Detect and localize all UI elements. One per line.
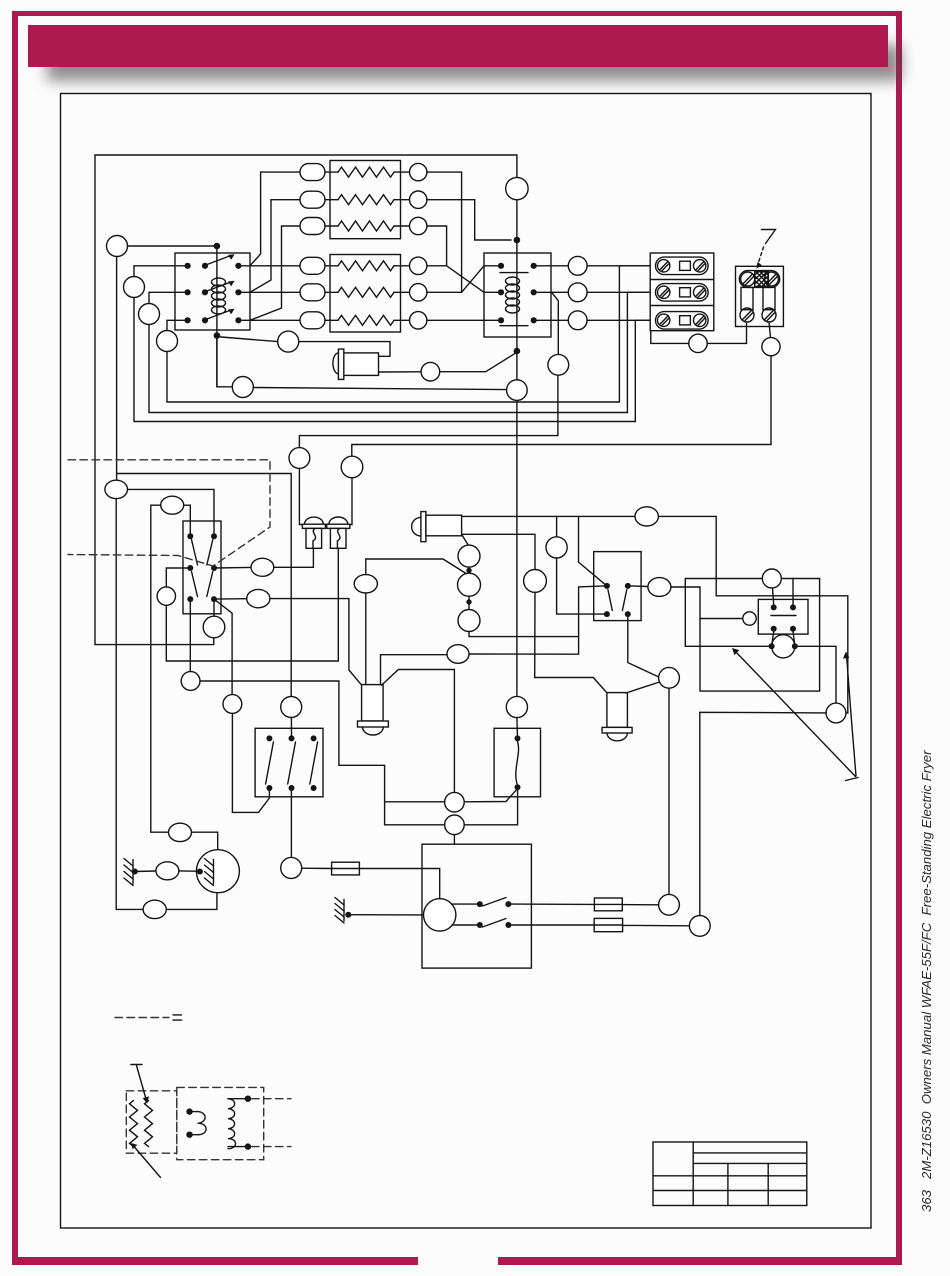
switch SW3 arms [608, 590, 627, 611]
switch SW3 box [594, 552, 641, 621]
wire K4 coil west [700, 618, 743, 620]
connector circle C10 [341, 456, 363, 478]
wire bus B [149, 292, 650, 412]
heater R2 row [300, 191, 427, 208]
wire thermostat bottom left down [189, 599, 191, 672]
wire K2 out row2 [537, 283, 650, 302]
wire K2 out row3 [537, 311, 650, 330]
contactor K1 coil [212, 278, 226, 314]
connector circle C21 [689, 916, 710, 937]
legend coil B [228, 1096, 251, 1150]
main switch SW4 pole2 [288, 735, 296, 791]
junction dot K1 bottom [214, 332, 221, 339]
control switch contacts row2 [452, 919, 511, 929]
heater bank bottom resistor box [330, 255, 401, 333]
wire C7 east staircase to C18 [200, 681, 385, 825]
wire E2 west riser down to pilot ellipse [151, 505, 169, 832]
maroon bottom bar right segment [498, 1257, 902, 1265]
wire L3 feed row2 [149, 292, 188, 304]
ground G3 [335, 898, 351, 924]
wire heater top row2 riser to spine junction [427, 200, 511, 240]
wire SW3 right contact to O3 [631, 585, 648, 588]
wire circle B to spine circle [253, 388, 506, 390]
connector ellipse E7 [247, 589, 270, 607]
annotation arrow curved [843, 652, 858, 781]
main switch SW4 pole3 [310, 735, 318, 791]
wire C22 east to C13 riser [795, 646, 836, 703]
wire C18 down to control box [453, 835, 455, 845]
thermostat TH1 switch arms [192, 540, 213, 597]
wire K1 riser to heater top row2 [250, 200, 300, 293]
relay K4 contact bar [771, 615, 796, 617]
wire E1 down left main [116, 499, 143, 910]
wire riser circle L1 down [116, 257, 118, 481]
relay K4 contacts [771, 604, 796, 631]
control motor M2 [424, 899, 456, 931]
connector circle L4 [157, 331, 178, 352]
connector circle C5 [203, 616, 225, 638]
maroon outer frame right stripe [896, 11, 902, 1265]
annotation arrow long diagonal [732, 648, 856, 777]
wire ellipse E8 link to chain dot [366, 559, 467, 575]
wire crossover X diagonal b [427, 266, 498, 293]
wire K1 riser to heater top row3 [250, 226, 300, 320]
wire E5 east to motor top [192, 832, 218, 850]
diagram border frame [61, 94, 872, 1229]
connector ellipse E6 [251, 558, 274, 576]
wire K1 out row1 direct [242, 265, 301, 267]
wire spine into SW2 [516, 718, 519, 736]
wire F3 to C21 [623, 924, 690, 926]
wire solenoid right leg down to circle [762, 322, 780, 356]
wire C9 down to plug1 [299, 468, 303, 524]
connector circle C13 [826, 703, 846, 723]
maroon title band with drop shadow [28, 25, 888, 67]
legend arrow upper [131, 1065, 149, 1104]
connector oval O3 [648, 578, 671, 597]
transformer T1 [358, 685, 389, 735]
wire C9 top across to C11 [299, 375, 558, 447]
contactor K1 pole 1 contacts and arm [185, 254, 242, 269]
connector circle C8 [223, 695, 242, 714]
wire E4 to motor [179, 870, 197, 872]
contactor K1 pole 3 contacts and arm [185, 309, 242, 324]
connector circle B [232, 377, 253, 398]
thermostat TH1 contacts [187, 533, 217, 602]
connector circle C20 [659, 667, 680, 688]
wire row1 east to fuse F2 [511, 903, 594, 905]
junction dot spine lower [514, 348, 521, 355]
wire bus A left riser [167, 266, 650, 402]
wire contactor centre pole [216, 246, 218, 387]
wire K1 out row3 direct [242, 319, 301, 321]
motor M1 internal ground [197, 859, 214, 886]
heater R3 row [300, 217, 427, 234]
wire TB1 bottom to solenoid [651, 322, 747, 353]
wire L1 feed to contactor [128, 245, 217, 247]
wire branch down to switch SW3 [579, 516, 607, 585]
wire C20 down to C19 [668, 688, 670, 894]
wire F2 to C19 [622, 904, 658, 906]
connector oval O1 [635, 507, 658, 526]
relay K4 box [758, 599, 808, 634]
wire K1 bottom diagonal to buzzer branch [217, 336, 278, 342]
connector circle C26 [524, 570, 547, 593]
heater R6 row [300, 312, 427, 329]
wire riser L1 branch east [117, 474, 292, 697]
wire L4 feed row3 [167, 320, 188, 331]
wire K2 out row1 [537, 256, 650, 275]
legend transformer dashed box outer [177, 1087, 264, 1159]
relay K2 coil [506, 277, 520, 313]
wire K4 stubs [772, 579, 795, 644]
dashed control linkage upper [68, 460, 270, 566]
sidebar caption text [919, 750, 934, 1212]
wire K1 out row2 direct [242, 291, 301, 293]
solenoid SOL1 legs [741, 287, 775, 309]
connector circle C19 [659, 894, 680, 915]
wire C17 C18 west stubs [385, 802, 445, 825]
wire lamp lower to C26 riser [462, 534, 535, 569]
wire C18 east up into SW2 [464, 790, 517, 825]
circle spine mid [507, 380, 528, 401]
control switch contacts row1 [452, 898, 512, 908]
wire K1 riser to heater top row1 [250, 172, 300, 266]
wire SW3 bottom-right down to C20 [628, 614, 660, 677]
switch SW2 box [494, 728, 540, 797]
wire thermostat bottom loop [166, 605, 338, 661]
terminal block TB1 row3 [656, 312, 709, 330]
wire C11 bottom to SW3 [557, 558, 604, 614]
connector circle C27 [281, 697, 302, 718]
ground G1 [124, 859, 138, 886]
wire lamp east main run [462, 516, 848, 713]
switch SW3 contacts [604, 583, 631, 617]
relay K4 coil circle [743, 612, 756, 625]
wire heater row6 to relay K2 [427, 319, 498, 321]
wire upper loop top and left edge [95, 155, 517, 645]
wire G3 to motor M2 [348, 914, 423, 916]
main switch SW4 pole1 [266, 735, 274, 791]
wire T2 right lead [626, 682, 661, 694]
title block table [653, 1142, 807, 1206]
wire C21 up east to C13 [700, 712, 826, 915]
wire K1 bottom pole to circle B [217, 336, 232, 387]
fuse F1 [332, 862, 360, 875]
connector circle C17 [445, 792, 465, 812]
motor M1 [196, 850, 239, 893]
contactor K1 pole 2 contacts and arm [185, 281, 242, 296]
connector circle C6 [157, 587, 175, 605]
relay K2 box [484, 253, 551, 337]
wire C25 east to fuse F1 [302, 867, 332, 869]
heater bank top resistor box [330, 161, 401, 239]
wire heater top row3 riser [427, 226, 447, 266]
wire O2 east to SW3 [469, 586, 604, 654]
wire C8 down to pole1 of main switch [232, 713, 269, 812]
connector circle before buzzer [278, 331, 299, 352]
wire T1 right lead to C17 [382, 670, 455, 793]
wire bus D solenoid to lamp branch [352, 356, 771, 457]
heater R4 row [300, 257, 427, 274]
legend dashed stubs [252, 1099, 292, 1147]
connector circle L1 [107, 236, 128, 257]
switch SW2 contacts and arm [515, 735, 521, 790]
contactor K1 box [175, 253, 250, 330]
indicator lamp LP1 [412, 512, 462, 542]
terminal block TB1 row1 [656, 257, 709, 275]
wire row2 east to fuse F3 [511, 924, 594, 926]
wire thermostat diagonal branch to C8 [214, 599, 232, 695]
control box CB1 [422, 844, 531, 968]
terminal block TB1 row2 [656, 284, 709, 302]
legend arrow lower [131, 1143, 161, 1178]
indicator chain circle C15 [458, 573, 481, 596]
fuse F2 [594, 898, 622, 911]
legend resistor R7 vertical [130, 1101, 138, 1147]
buzzer BZ1 [333, 349, 379, 379]
legend resistor R8 vertical [145, 1101, 153, 1147]
solenoid SOL1 box [736, 266, 784, 326]
wire C10 down to plug2 [350, 478, 352, 525]
wire O2 west to T1 [381, 655, 448, 686]
chain junction dot upper [468, 567, 470, 573]
indicator chain circle C14 [458, 545, 480, 567]
connector circle C7 [181, 672, 200, 691]
wire bus C [134, 298, 650, 422]
connector circle C23 [762, 569, 781, 588]
wire SW2 bottom west to C17 [464, 789, 517, 802]
wire C27 into SW4 pole2 [290, 718, 292, 736]
wire thermostat mid-left loop [166, 568, 190, 587]
wire thermostat bottom right down to C5 [213, 599, 215, 616]
indicator chain circle C16 [458, 610, 480, 632]
circle spine top [506, 177, 528, 199]
heater R5 row [300, 284, 427, 301]
connector circle L2 [124, 277, 145, 298]
wire buzzer to circle [379, 362, 440, 381]
maroon outer frame left stripe [12, 11, 18, 1265]
connector circle C11 [546, 537, 567, 558]
wire crossover X diagonal a [427, 266, 498, 293]
wire circle to spine junction diagonal [440, 353, 516, 371]
wire branch down to big circle wire [685, 579, 771, 647]
main switch SW4 box [255, 728, 323, 797]
relay K2 contact bars [500, 273, 528, 326]
connector circle C9 [289, 448, 310, 469]
connector ellipse E2 [161, 496, 184, 514]
circle spine lower [506, 696, 527, 717]
fuse holder plug P1 [302, 517, 325, 548]
solenoid SOL1 crosshatched core [755, 272, 769, 287]
legend coil A [186, 1108, 206, 1138]
terminal block TB1 box [650, 253, 714, 331]
junction dot spine upper [514, 237, 521, 244]
pilot ellipse E5 [169, 823, 192, 841]
legend transformer dashed box inner [126, 1091, 177, 1153]
wire E6 to plug1 [274, 548, 314, 567]
wire buzzer feed [299, 342, 390, 357]
chain junction dot lower [468, 596, 470, 609]
wire chain bottom east [469, 632, 579, 637]
wire bottom run to motor [166, 893, 217, 910]
wire E1 to thermostat upper right contact [128, 489, 215, 536]
junction dot K1 top [214, 243, 221, 250]
wire C11 top from lamp line [556, 516, 558, 536]
solenoid SOL1 bottom screws [740, 308, 776, 322]
connector ellipse E3 [143, 900, 166, 918]
wire G1 to E4 [135, 870, 156, 873]
wire L2 feed row1 [134, 266, 188, 277]
solenoid SOL1 top stadium with screws [739, 271, 779, 288]
wire C12 diagonal to relay K2 [552, 292, 559, 354]
wire F1 east into control box to motor [359, 869, 439, 899]
connector oval O2 [447, 645, 469, 664]
big connector circle C22 [769, 635, 798, 658]
connector circle L3 [139, 304, 160, 325]
maroon outer frame top line [12, 11, 902, 16]
wire thermostat bottom right to E7 [214, 598, 247, 600]
wire spine x=517 upper [516, 155, 518, 696]
connector circle C25 [281, 857, 302, 878]
wire lamp lower east to chain [462, 534, 469, 545]
connector ellipse E4 [156, 862, 179, 880]
wire thermostat mid-right to E6 [214, 566, 251, 569]
solenoid pointer label 7 [757, 230, 776, 269]
wire plug2 down to bottom loop [337, 548, 339, 661]
relay K2 contact dots [498, 263, 537, 324]
wire E2 to thermostat upper left contact [184, 505, 191, 536]
fuse holder plug P2 [327, 517, 350, 548]
connector circle C12 [548, 354, 569, 375]
wire relay K4 top feed [685, 578, 762, 580]
svg-text:363 2M-Z16530 Owners Manual: 363 2M-Z16530 Owners Manual WFAE-55F/FC … [919, 750, 934, 1212]
legend dashed line key [115, 1015, 182, 1020]
transformer T2 [602, 693, 632, 741]
wire E8 down to transformer T1 [365, 593, 367, 685]
wire heater top row1 to crossover riser [427, 172, 462, 292]
maroon bottom bar left segment [12, 1257, 418, 1265]
connector circle C18 [445, 815, 465, 835]
thermostat TH1 box [183, 521, 221, 614]
connector ellipse E8 [354, 575, 377, 593]
heater R1 row [300, 163, 427, 180]
chain junction dots [466, 568, 471, 605]
wire SW4 pole2 down to C25 [290, 791, 292, 858]
wire O3 loop to relay K4 area [671, 579, 820, 692]
wire C26 down to transformer T2 [535, 592, 608, 693]
wire E7 east down to transformer T1 [270, 599, 362, 686]
fuse F3 [594, 918, 622, 931]
connector ellipse E1 [105, 480, 128, 498]
